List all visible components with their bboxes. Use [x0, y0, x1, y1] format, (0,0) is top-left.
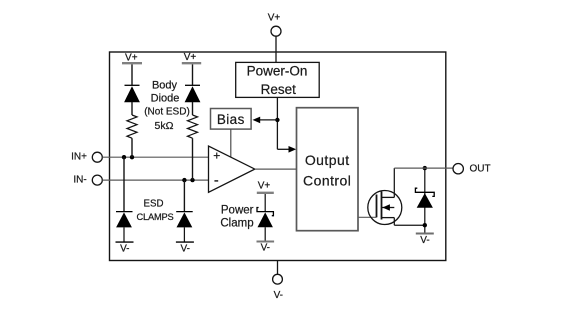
svg-text:Power-On: Power-On — [247, 64, 308, 79]
svg-text:+: + — [213, 149, 220, 163]
svg-text:-: - — [214, 173, 219, 189]
svg-text:V+: V+ — [125, 52, 138, 63]
svg-text:Output: Output — [305, 152, 350, 168]
svg-text:(Not ESD): (Not ESD) — [144, 107, 190, 118]
svg-text:V-: V- — [420, 235, 429, 246]
svg-text:IN-: IN- — [73, 174, 86, 185]
svg-text:Diode: Diode — [151, 93, 180, 105]
svg-text:Reset: Reset — [261, 82, 297, 97]
svg-text:V-: V- — [180, 243, 189, 254]
svg-text:ESD: ESD — [144, 199, 164, 210]
svg-text:V+: V+ — [184, 52, 197, 63]
svg-text:Clamp: Clamp — [220, 217, 253, 229]
svg-text:V-: V- — [120, 243, 129, 254]
svg-text:V+: V+ — [268, 13, 281, 24]
svg-text:V+: V+ — [258, 181, 271, 192]
svg-text:5kΩ: 5kΩ — [155, 120, 174, 132]
svg-text:Power: Power — [221, 204, 254, 216]
svg-text:Control: Control — [303, 172, 351, 188]
svg-text:Bias: Bias — [217, 112, 245, 127]
svg-text:IN+: IN+ — [71, 151, 87, 162]
svg-text:CLAMPS: CLAMPS — [136, 212, 173, 222]
svg-text:OUT: OUT — [469, 164, 490, 175]
svg-text:V-: V- — [274, 290, 283, 301]
svg-text:V-: V- — [261, 242, 270, 253]
svg-text:Body: Body — [152, 79, 178, 91]
